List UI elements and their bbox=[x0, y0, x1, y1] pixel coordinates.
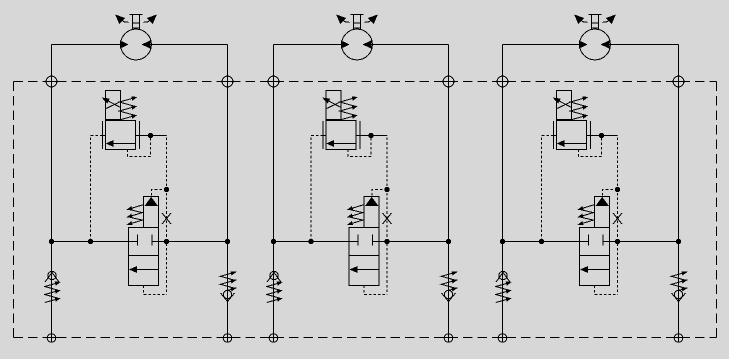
port P3B (top right flange connection) bbox=[671, 76, 686, 87]
valve V2.2 open position (flow arrow) bbox=[351, 267, 379, 273]
check valve CV1L spring bbox=[45, 282, 60, 303]
valve V1.1 right port flange bbox=[139, 121, 141, 149]
wire: main line right segment bbox=[379, 241, 449, 243]
valve V1.1 pilot stage body (variable orifice with arrow) bbox=[103, 91, 121, 120]
port T3A (bottom left drain connection) bbox=[496, 334, 509, 343]
check valve CV1L (ball, seat up, spring below) bbox=[45, 271, 59, 282]
check valve CV3L (ball, seat up, spring below) bbox=[496, 271, 510, 282]
wire: valve V1.1 right port line bbox=[136, 135, 165, 137]
node: main line / left pilot junction bbox=[88, 239, 93, 244]
valve V3.2 spring bbox=[579, 205, 595, 225]
port P2A (top left flange connection) bbox=[266, 76, 281, 87]
valve V2.2 pilot cap with check poppet bbox=[364, 197, 379, 228]
pilot line: V2.1 left port down to main line bbox=[311, 136, 323, 242]
valve V2.1 adjustable spring bbox=[340, 97, 357, 120]
port T2A (bottom left drain connection) bbox=[267, 334, 280, 343]
pilot line: V3.1 left port down to main line bbox=[542, 136, 554, 242]
motor M2 rotation arrow left bbox=[337, 15, 350, 23]
pilot line: V1.1 left port down to main line bbox=[91, 136, 103, 242]
port T2B (bottom right drain connection) bbox=[442, 334, 455, 343]
motor M2 output shaft bbox=[351, 15, 364, 30]
hydraulic motor M1 (bidirectional) bbox=[120, 29, 151, 60]
pilot line: V1.2 drain loop bbox=[144, 286, 167, 295]
valve V3.1 pilot stage body (variable orifice with arrow) bbox=[554, 91, 572, 120]
pilot line: V1.1 drain loop to right port bbox=[128, 138, 151, 157]
motor M2 rotation arrow right bbox=[364, 15, 377, 23]
valve V1.2 closed position (blocked ports) bbox=[129, 235, 159, 246]
valve V3.1 main stage body bbox=[557, 121, 587, 150]
wire: valve V3.1 left port stub bbox=[554, 135, 557, 137]
pilot line: branch to valve V2.2 pilot cap bbox=[372, 190, 387, 197]
wire: main line left segment bbox=[503, 241, 580, 243]
pilot line: V1.1 right port down to lower valve bbox=[164, 136, 167, 295]
wire: module 2 top line to motor left port bbox=[274, 44, 342, 46]
wire: module 3 right supply line bbox=[678, 45, 680, 335]
wire: valve V1.1 left port stub bbox=[103, 135, 106, 137]
node: main line / left supply junction bbox=[500, 239, 505, 244]
valve V3.2 pilot cap with check poppet bbox=[595, 197, 610, 228]
valve V1.2 body (2 positions) bbox=[129, 228, 159, 286]
pilot line: branch to valve V1.2 pilot cap bbox=[152, 190, 167, 197]
wire: valve V2.1 left port stub bbox=[323, 135, 326, 137]
node: junction on V2.1 right port line bbox=[369, 133, 374, 138]
wire: module 3 top line to motor left port bbox=[503, 44, 580, 46]
motor M3 rotation arrow left bbox=[575, 15, 588, 23]
node: main line / left supply junction bbox=[49, 239, 54, 244]
node: pilot branch junction bbox=[385, 187, 390, 192]
check valve CV2R spring bbox=[441, 272, 456, 291]
valve V1.2 spring bbox=[128, 205, 144, 225]
valve V2.1 main stage body bbox=[326, 121, 356, 150]
valve V1.1 left port flange bbox=[102, 121, 104, 149]
node: main line / right supply junction bbox=[225, 239, 230, 244]
node: main line / right pilot junction bbox=[164, 239, 169, 244]
plugged test point X bbox=[162, 213, 171, 224]
wire: main line left segment bbox=[274, 241, 350, 243]
wire: module 2 left supply line bbox=[273, 45, 275, 335]
pilot line: V2.1 drain loop to right port bbox=[348, 138, 371, 157]
port T1A (bottom left drain connection) bbox=[45, 334, 58, 343]
port P1A (top left flange connection) bbox=[44, 76, 59, 87]
valve V2.2 spring bbox=[348, 205, 364, 225]
node: main line / left supply junction bbox=[271, 239, 276, 244]
check valve CV2L spring bbox=[267, 282, 282, 303]
port T1B (bottom right drain connection) bbox=[221, 334, 234, 343]
wire: module 2 right supply line bbox=[448, 45, 450, 335]
wire: module 1 top line to motor left port bbox=[52, 44, 121, 46]
valve V3.2 body (2 positions) bbox=[580, 228, 610, 286]
motor M1 rotation arrow left bbox=[116, 15, 129, 23]
motor M3 output shaft bbox=[589, 15, 602, 30]
check valve CV3R (ball, seat down, spring above) bbox=[672, 290, 686, 301]
valve V1.2 pilot cap with check poppet bbox=[144, 197, 159, 228]
plugged test point X bbox=[383, 213, 392, 224]
plugged test point X bbox=[613, 213, 622, 224]
valve V2.1 right port flange bbox=[359, 121, 361, 149]
check valve CV2L (ball, seat up, spring below) bbox=[267, 271, 281, 282]
valve V3.2 open position (flow arrow) bbox=[581, 267, 609, 273]
port P2B (top right flange connection) bbox=[441, 76, 456, 87]
motor M3 rotation arrow right bbox=[602, 15, 615, 23]
valve V3.1 right port flange bbox=[590, 121, 592, 149]
node: main line / right pilot junction bbox=[385, 239, 390, 244]
port P3A (top left flange connection) bbox=[495, 76, 510, 87]
valve V1.1 adjustable spring bbox=[119, 97, 136, 120]
motor M1 rotation arrow right bbox=[143, 15, 156, 23]
valve V3.1 adjustable spring bbox=[570, 97, 587, 120]
port T3B (bottom right drain connection) bbox=[672, 334, 685, 343]
boundary line: left enclosure edge bbox=[13, 82, 15, 338]
hydraulic motor M3 (bidirectional) bbox=[579, 29, 610, 60]
wire: valve V3.1 right port line bbox=[587, 135, 616, 137]
node: pilot branch junction bbox=[615, 187, 620, 192]
hydraulic motor M2 (bidirectional) bbox=[341, 29, 372, 60]
valve V1.1 main stage body bbox=[106, 121, 136, 150]
node: main line / left pilot junction bbox=[309, 239, 314, 244]
check valve CV1R spring bbox=[220, 272, 235, 291]
valve V2.1 pilot stage body (variable orifice with arrow) bbox=[323, 91, 341, 120]
node: main line / right supply junction bbox=[676, 239, 681, 244]
check valve CV3R spring bbox=[671, 272, 686, 291]
valve V2.2 closed position (blocked ports) bbox=[349, 235, 379, 246]
boundary line: common supply manifold (top, dashed) bbox=[14, 81, 717, 83]
check valve CV1R (ball, seat down, spring above) bbox=[221, 290, 235, 301]
pilot line: V2.2 drain loop bbox=[364, 286, 387, 295]
node: main line / left pilot junction bbox=[539, 239, 544, 244]
pilot line: branch to valve V3.2 pilot cap bbox=[603, 190, 618, 197]
wire: main line right segment bbox=[610, 241, 679, 243]
pilot line: V3.2 drain loop bbox=[595, 286, 618, 295]
boundary line: common drain manifold (bottom, dashed) bbox=[14, 337, 717, 339]
pilot line: V3.1 drain loop to right port bbox=[579, 138, 602, 157]
pilot line: V2.1 right port down to lower valve bbox=[385, 136, 388, 295]
valve V3.2 closed position (blocked ports) bbox=[580, 235, 610, 246]
node: main line / right pilot junction bbox=[615, 239, 620, 244]
boundary line: right enclosure edge bbox=[716, 82, 718, 338]
wire: module 3 top line to motor right port bbox=[609, 44, 679, 46]
wire: module 3 left supply line bbox=[502, 45, 504, 335]
valve V1.2 open position (flow arrow) bbox=[130, 267, 158, 273]
node: junction on V1.1 right port line bbox=[148, 133, 153, 138]
pilot line: V3.1 right port down to lower valve bbox=[615, 136, 618, 295]
valve V3.1 left port flange bbox=[553, 121, 555, 149]
check valve CV2R (ball, seat down, spring above) bbox=[442, 290, 456, 301]
valve V2.1 left port flange bbox=[322, 121, 324, 149]
wire: main line right segment bbox=[159, 241, 228, 243]
check valve CV3L spring bbox=[496, 282, 511, 303]
port P1B (top right flange connection) bbox=[220, 76, 235, 87]
wire: module 1 right supply line bbox=[227, 45, 229, 335]
node: main line / right supply junction bbox=[446, 239, 451, 244]
wire: module 2 top line to motor right port bbox=[371, 44, 449, 46]
wire: module 1 top line to motor right port bbox=[150, 44, 228, 46]
node: junction on V3.1 right port line bbox=[599, 133, 604, 138]
valve V2.2 body (2 positions) bbox=[349, 228, 379, 286]
node: pilot branch junction bbox=[164, 187, 169, 192]
motor M1 output shaft bbox=[130, 15, 143, 30]
wire: module 1 left supply line bbox=[51, 45, 53, 335]
wire: valve V2.1 right port line bbox=[356, 135, 385, 137]
wire: main line left segment bbox=[52, 241, 129, 243]
